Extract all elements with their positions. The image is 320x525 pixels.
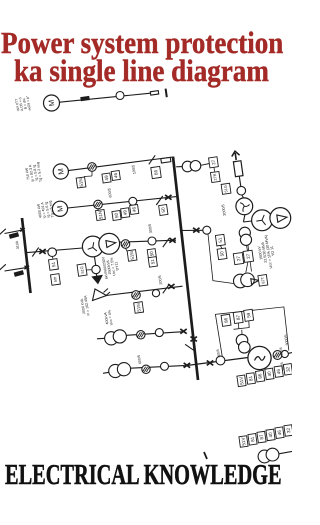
svg-text:100/5: 100/5 — [131, 164, 136, 174]
relay 87T — [258, 275, 268, 287]
T2 CT — [137, 331, 145, 339]
relay 27a — [233, 253, 243, 265]
relay 50t tieL — [51, 274, 61, 286]
wire F1 — [60, 93, 151, 102]
breaker F1 — [80, 96, 89, 101]
wire bus to VT — [176, 166, 182, 168]
bus B1 — [173, 157, 198, 380]
svg-text:300/5: 300/5 — [279, 347, 284, 356]
label 310A — [15, 240, 20, 250]
arrester arrow — [232, 151, 240, 160]
relay 49 F3 — [121, 208, 130, 218]
transformer T3 circles — [109, 364, 122, 377]
CT F3 — [94, 200, 103, 209]
CT F2 — [88, 163, 97, 172]
wire 51G — [86, 269, 92, 271]
relay 27R VT — [210, 171, 220, 182]
rotor circle — [236, 198, 253, 215]
motor feeder M1 label text — [14, 95, 32, 113]
relay 51 — [215, 234, 225, 246]
CT gen right — [273, 351, 282, 360]
junction X F3 — [165, 195, 171, 200]
relay 51G VT — [221, 183, 231, 194]
branch circle — [152, 290, 159, 297]
tie circle right — [148, 237, 156, 245]
label 100/5 gen — [280, 362, 285, 371]
label 300/5 ct — [216, 349, 221, 358]
transformer T1 circle A — [82, 236, 103, 257]
fuse F2 — [161, 157, 171, 163]
relay 86 — [221, 314, 231, 326]
T3 CT — [142, 365, 150, 373]
label 300/5 tie — [148, 223, 153, 233]
T1 neutral circle — [92, 265, 100, 273]
tie wire right — [119, 240, 176, 242]
relay 46 F2 — [111, 170, 120, 180]
label 600/5 F3 — [107, 188, 112, 198]
motor M2 — [53, 164, 68, 179]
switch slash F2 — [149, 155, 155, 164]
load L2 slash — [0, 264, 6, 270]
delta load symbol — [93, 289, 107, 301]
bottom relay row — [239, 436, 248, 448]
wire relay F2 — [91, 172, 93, 177]
bottom tick — [204, 452, 207, 459]
svg-text:51G: 51G — [79, 266, 85, 274]
branch label text — [79, 295, 90, 317]
wire VT to 27 — [201, 164, 210, 166]
svg-text:600/5: 600/5 — [107, 188, 112, 198]
label 600/5 T3 — [137, 355, 142, 365]
relay 51N tie — [127, 250, 137, 262]
wire relays — [220, 245, 222, 248]
gen relay row — [237, 375, 246, 387]
load L1 fuse — [9, 232, 19, 239]
zone boundary — [208, 234, 234, 284]
station transformer circles — [239, 227, 250, 238]
label 100/5 — [131, 164, 136, 174]
svg-text:3000/5: 3000/5 — [221, 204, 227, 216]
svg-text:200/5: 200/5 — [158, 275, 163, 285]
svg-text:3000/5: 3000/5 — [284, 334, 290, 345]
tie X — [39, 249, 45, 254]
switch slash bus — [185, 344, 195, 351]
load L1 wire — [5, 230, 24, 234]
wire zone down — [234, 328, 250, 330]
relay 51 tieL — [49, 259, 59, 271]
label 200/5 — [158, 275, 163, 285]
T2 stub — [97, 337, 105, 340]
junction X right — [207, 361, 213, 366]
motor M3 — [52, 201, 67, 216]
relay 46 F3 — [130, 204, 139, 214]
motor feeder M2 label text — [24, 162, 43, 184]
relay 51G T1 — [77, 264, 87, 277]
svg-text:300/5: 300/5 — [216, 349, 221, 358]
GSU transformer wye circle — [252, 210, 273, 231]
grounding resistor — [233, 161, 243, 177]
relay 66 F2 — [151, 166, 161, 178]
tie CT right — [121, 240, 130, 249]
generator G1 — [248, 346, 271, 369]
label 3000/5 — [221, 204, 227, 216]
relay 50 F3 — [112, 210, 121, 220]
zone boundary right — [248, 246, 252, 272]
aux circle — [237, 186, 246, 195]
wire 27 down — [213, 168, 216, 172]
wire — [242, 195, 244, 198]
transformer T2 circles — [105, 332, 118, 345]
generator crossbar — [183, 358, 248, 367]
relay 51 tie — [148, 257, 157, 268]
label 3000/5 b — [284, 334, 290, 345]
svg-text:M: M — [56, 168, 66, 175]
switch slash F3 — [156, 196, 162, 205]
junction X — [193, 228, 199, 233]
T1 ground arrow — [92, 274, 102, 284]
junction X left — [184, 363, 190, 368]
wire tieL relays — [52, 257, 53, 260]
T3 stub — [103, 372, 109, 373]
branch slash — [163, 284, 169, 293]
relay 50 bus F3 — [159, 204, 168, 215]
wire to GSU — [243, 221, 251, 222]
relay 59 — [244, 309, 254, 321]
load L1 slash — [0, 229, 6, 235]
relay 49 F2 — [102, 173, 111, 183]
relay 27b — [243, 250, 253, 262]
svg-text:YD 11: YD 11 — [270, 246, 276, 256]
wire rotor down — [243, 215, 245, 222]
CT circle — [203, 226, 211, 234]
T1 label text — [101, 254, 120, 279]
load L2 wire — [5, 267, 29, 271]
svg-text:87T: 87T — [260, 276, 266, 284]
svg-text:M: M — [47, 99, 57, 106]
branch wire — [106, 286, 183, 295]
wire resistor down — [239, 176, 241, 186]
wire 27 — [247, 245, 248, 251]
svg-text:300/5: 300/5 — [148, 223, 153, 233]
GSU label text — [256, 234, 278, 270]
relay 51N F2 — [76, 177, 86, 188]
VT circles gen — [236, 334, 248, 346]
T1 neutral wire — [95, 257, 96, 265]
zone box — [215, 307, 288, 358]
circle gen right — [281, 350, 288, 357]
tie X right — [169, 238, 175, 243]
branch X — [168, 284, 174, 289]
bus breaker X — [191, 337, 197, 342]
aux transformer delta — [251, 279, 259, 285]
T3 wire — [130, 366, 184, 369]
delta hash — [104, 289, 109, 293]
aux transformer circles — [234, 274, 248, 288]
relay 50 — [217, 248, 227, 260]
bus B2 — [22, 218, 31, 293]
terminal tick F1 — [166, 89, 167, 98]
relay 87 — [233, 311, 243, 323]
tie wire left — [27, 248, 83, 253]
svg-text:M: M — [55, 205, 65, 212]
wire relay tie — [126, 248, 128, 251]
svg-text:600/5: 600/5 — [137, 355, 142, 365]
motor feeder M3 label text — [36, 200, 55, 220]
load L1 tap X — [20, 228, 25, 231]
wire F2 — [68, 157, 173, 171]
fuse F1 — [150, 91, 158, 95]
load L2 tap X — [25, 266, 30, 269]
wire relay F3 — [97, 209, 99, 211]
relay 50 tie — [147, 249, 156, 260]
relay 51N F3 — [96, 209, 106, 220]
motor M1 — [44, 95, 60, 111]
VT transformer circles — [182, 161, 193, 172]
CT circle gen — [216, 356, 225, 365]
wire bus tap right — [182, 229, 204, 231]
GSU transformer delta circle — [270, 208, 291, 229]
svg-text:DY11: DY11 — [114, 261, 119, 270]
T2 wire — [126, 332, 185, 336]
wire gen right — [288, 352, 292, 355]
branch CT — [132, 291, 141, 300]
tie slash right — [163, 238, 169, 247]
CT circle F1 — [116, 92, 124, 100]
load L2 fuse — [14, 270, 24, 277]
branch label text2 — [103, 309, 113, 326]
label 300/5 gen — [279, 347, 284, 356]
tie CT circle — [48, 248, 57, 257]
tie slash — [32, 248, 38, 257]
svg-text:310A: 310A — [15, 240, 20, 250]
T2 X — [180, 329, 186, 334]
CT circle F3 — [129, 197, 137, 205]
relay 27 VT — [209, 157, 219, 168]
T2 circle — [155, 329, 163, 337]
bottom wire — [279, 451, 292, 453]
relay 51N branch — [134, 302, 144, 314]
bottom transformer circles — [258, 450, 271, 463]
T3 circle — [161, 362, 169, 370]
wire F3 — [68, 197, 177, 208]
transformer T1 circle B — [99, 233, 120, 254]
